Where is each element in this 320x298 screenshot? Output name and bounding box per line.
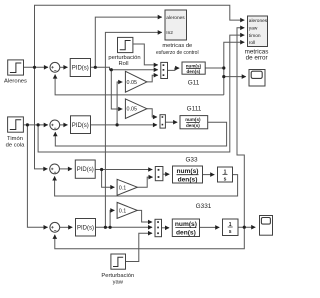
svg-text:num(s): num(s) — [185, 117, 201, 122]
svg-text:den(s): den(s) — [176, 230, 196, 237]
svg-text:s: s — [224, 177, 227, 183]
svg-text:yaw: yaw — [113, 280, 124, 286]
svg-text:G33: G33 — [185, 157, 198, 164]
svg-text:Roll: Roll — [119, 61, 129, 67]
svg-text:Timón: Timón — [7, 136, 23, 142]
svg-text:G111: G111 — [187, 106, 202, 113]
svg-text:alerones: alerones — [249, 18, 268, 24]
svg-text:PID(s): PID(s) — [72, 123, 89, 129]
svg-text:den(s): den(s) — [187, 69, 201, 74]
svg-text:Alerones: Alerones — [4, 78, 27, 84]
svg-text:alerones: alerones — [166, 15, 185, 21]
svg-text:de error: de error — [246, 55, 268, 62]
svg-text:num(s): num(s) — [186, 63, 202, 68]
svg-text:roll: roll — [249, 40, 255, 46]
svg-text:G331: G331 — [196, 203, 212, 210]
svg-text:s: s — [229, 229, 232, 235]
svg-text:esfuerzo de control: esfuerzo de control — [156, 50, 199, 56]
svg-text:0.05: 0.05 — [127, 107, 138, 113]
svg-text:G11: G11 — [188, 80, 200, 87]
svg-text:PID(s): PID(s) — [77, 167, 94, 173]
svg-text:In2: In2 — [166, 30, 173, 36]
svg-text:num(s): num(s) — [177, 168, 199, 175]
svg-text:0.1: 0.1 — [119, 209, 127, 215]
svg-text:PID(s): PID(s) — [77, 225, 94, 231]
svg-text:Perturbación: Perturbación — [101, 273, 134, 279]
svg-text:de cola: de cola — [6, 143, 25, 149]
svg-text:timon: timon — [249, 33, 261, 39]
svg-text:den(s): den(s) — [186, 123, 200, 128]
svg-text:0.05: 0.05 — [127, 80, 138, 86]
svg-text:num(s): num(s) — [175, 221, 197, 228]
svg-text:PID(s): PID(s) — [72, 66, 89, 72]
svg-text:den(s): den(s) — [178, 177, 198, 184]
svg-text:yaw: yaw — [249, 26, 258, 31]
svg-text:metricas de: metricas de — [162, 43, 192, 49]
svg-text:0.1: 0.1 — [119, 185, 127, 191]
